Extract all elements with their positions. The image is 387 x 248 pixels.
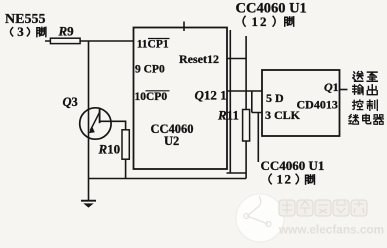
- svg-text:www.elecfans.com: www.elecfans.com: [278, 223, 384, 237]
- svg-text:CC4060 U1: CC4060 U1: [236, 1, 307, 17]
- svg-text:NE555: NE555: [5, 12, 45, 27]
- svg-text:CD4013: CD4013: [297, 98, 338, 112]
- svg-text:9 CP0: 9 CP0: [135, 64, 165, 76]
- svg-text:R11: R11: [217, 108, 239, 123]
- svg-text:Reset12: Reset12: [179, 52, 219, 66]
- svg-text:Q3: Q3: [63, 95, 78, 109]
- svg-text:11CP1: 11CP1: [137, 39, 169, 51]
- svg-text:3 CLK: 3 CLK: [265, 108, 301, 122]
- svg-text:R9: R9: [58, 24, 75, 39]
- svg-text:Q1: Q1: [324, 80, 339, 94]
- svg-text:10CP0: 10CP0: [135, 91, 168, 103]
- svg-text:3: 3: [17, 24, 24, 39]
- svg-text:U2: U2: [164, 134, 179, 148]
- svg-text:Q12 1: Q12 1: [195, 88, 227, 103]
- svg-text:12: 12: [252, 14, 269, 29]
- svg-text:5 D: 5 D: [266, 91, 284, 105]
- svg-text:12: 12: [277, 172, 293, 187]
- svg-text:R10: R10: [98, 142, 121, 157]
